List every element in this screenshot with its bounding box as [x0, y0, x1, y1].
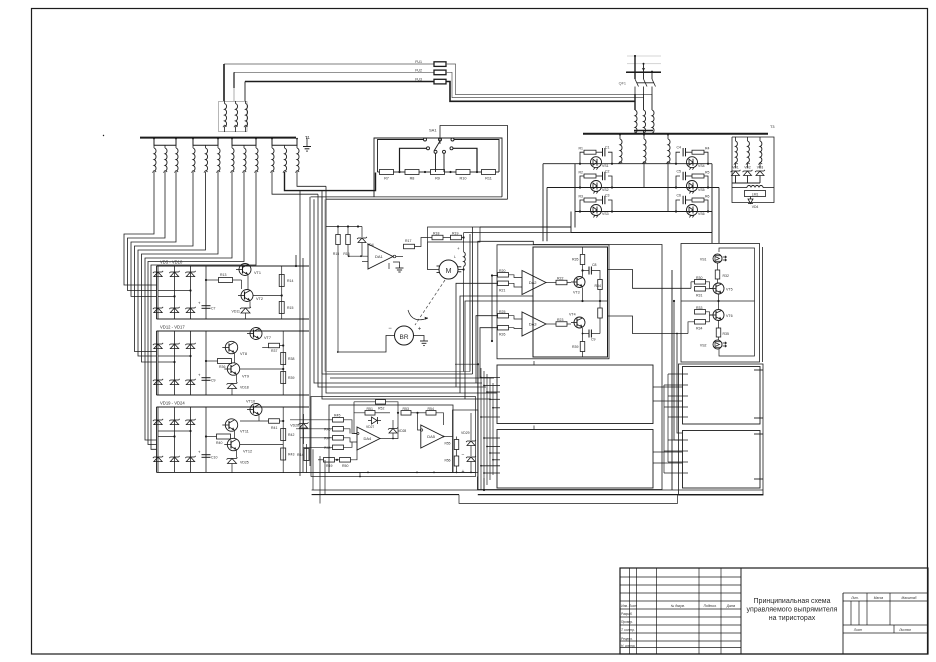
- wire bridge chain e: [314, 199, 482, 383]
- svg-text:R13: R13: [220, 273, 226, 277]
- wire R41 right: [280, 420, 284, 422]
- wire VT2 emitter: [249, 301, 251, 307]
- wire chain to return bus: [463, 233, 465, 238]
- bridge column: [174, 407, 176, 472]
- svg-text:VT12: VT12: [243, 450, 252, 454]
- wire rail1 left drop: [542, 164, 544, 242]
- resistor R16a: [347, 227, 349, 235]
- op-amp DA3: [522, 312, 546, 336]
- wire feed R46: [296, 428, 333, 430]
- svg-text:DA4: DA4: [363, 436, 372, 441]
- title block column lines: [629, 568, 631, 654]
- svg-text:VT4: VT4: [569, 313, 576, 317]
- resistor R44: [306, 444, 308, 473]
- svg-text:R4: R4: [705, 147, 710, 151]
- junction dots driver: [673, 300, 675, 302]
- module frame big: [478, 241, 662, 489]
- svg-text:VT7: VT7: [264, 336, 271, 340]
- motor M brush right: [458, 266, 462, 268]
- wire bridge1 to bridge2: [302, 266, 304, 472]
- resistor R5: [692, 174, 704, 178]
- motor output drop: [463, 270, 465, 372]
- svg-text:R39: R39: [288, 376, 294, 380]
- svg-text:R47: R47: [324, 437, 330, 441]
- wire C right stub 1: [754, 369, 763, 371]
- sawtooth block frame: [329, 405, 453, 472]
- snubber loop VS5: [676, 176, 680, 188]
- svg-text:R53: R53: [403, 407, 409, 411]
- bridge diode bottom: [170, 457, 178, 462]
- wire R35b to VS2: [718, 337, 720, 340]
- wire QF1 pole 2: [643, 94, 645, 110]
- wire bundle drop 2: [319, 456, 321, 504]
- svg-text:R36: R36: [219, 365, 225, 369]
- wire VT3 emitter: [582, 288, 584, 302]
- wire feed R49: [318, 459, 324, 461]
- svg-text:C4: C4: [677, 146, 682, 150]
- svg-text:FU1: FU1: [415, 60, 422, 64]
- primary bottom bar: [634, 130, 653, 132]
- svg-text:R20: R20: [499, 269, 505, 273]
- svg-text:VT3: VT3: [573, 291, 580, 295]
- limiter wires: [456, 437, 458, 440]
- zener VD18: [228, 384, 237, 389]
- field winding box LM: [745, 191, 766, 197]
- transistor VT12: [227, 438, 239, 450]
- junction: [424, 171, 426, 173]
- resistor R54: [426, 411, 436, 416]
- svg-text:VS1: VS1: [602, 164, 609, 168]
- capacitor C9: [205, 331, 207, 395]
- resistor R7: [380, 170, 394, 175]
- motor left lead: [428, 242, 440, 270]
- wire DA1 plus input: [362, 261, 368, 263]
- svg-text:Подпись: Подпись: [704, 604, 717, 608]
- svg-text:+: +: [198, 450, 201, 455]
- wire FU2 to breaker: [446, 72, 644, 97]
- wire tap A1: [481, 377, 500, 379]
- snubber loop VS2: [580, 176, 584, 188]
- wire bundle drop 1: [312, 449, 314, 490]
- block A notch: [533, 361, 535, 365]
- winding 3.3: [255, 145, 257, 148]
- pulse block D: [683, 431, 761, 489]
- svg-text:R34: R34: [595, 284, 601, 288]
- transformer T2 outline: [219, 102, 248, 132]
- wire B to D 1: [653, 451, 683, 453]
- right secondary winding 2: [643, 135, 645, 139]
- svg-text:R2: R2: [579, 171, 584, 175]
- svg-text:R14: R14: [287, 279, 293, 283]
- right block frame: [679, 364, 764, 495]
- svg-text:R40: R40: [216, 441, 222, 445]
- svg-text:Изм.: Изм.: [621, 604, 628, 608]
- wire phase C to fuse FU3: [245, 81, 434, 83]
- svg-text:Лист: Лист: [628, 604, 638, 608]
- block frame around SA1 resistors: [374, 138, 502, 197]
- svg-text:L: L: [454, 255, 456, 259]
- svg-text:QF1: QF1: [619, 82, 626, 86]
- limiter frame: [453, 410, 479, 472]
- bridge diode bottom: [154, 457, 162, 462]
- capacitor C7: [205, 266, 207, 319]
- wire chain i: [326, 186, 497, 393]
- wire resistor chain: [470, 171, 482, 173]
- svg-text:R52: R52: [378, 407, 384, 411]
- wire A to C 2: [653, 400, 683, 402]
- winding 4.1: [271, 145, 273, 148]
- wire bottom bus drop: [711, 212, 713, 233]
- bridge column: [157, 407, 159, 472]
- wire R39 bottom: [582, 352, 584, 358]
- capacitor C5: [682, 172, 684, 180]
- resistor R18: [432, 235, 443, 240]
- wire secondary phase 2: [128, 172, 166, 291]
- wire bottom feed DA4: [359, 472, 361, 476]
- transistor VT2: [241, 290, 253, 302]
- wire VT8 emitter: [234, 354, 236, 364]
- transistor VT9: [227, 363, 239, 375]
- wire DA1 output: [393, 255, 396, 258]
- svg-text:VD27: VD27: [366, 425, 374, 429]
- wire VT5 emitter: [718, 294, 720, 301]
- svg-text:FU2: FU2: [415, 69, 422, 73]
- svg-text:R56: R56: [444, 459, 450, 463]
- thyristor VS3: [591, 205, 602, 216]
- resistor R26: [498, 325, 509, 330]
- motor right lead: [458, 269, 464, 271]
- title block outer frame: [620, 568, 928, 654]
- wire bundle drop 3: [324, 460, 326, 495]
- field winding 3: [759, 137, 761, 141]
- resistor R11: [482, 170, 496, 175]
- bridge diode bottom: [170, 380, 178, 385]
- wire DA2 fb: [514, 287, 530, 295]
- svg-text:VS2: VS2: [700, 344, 707, 348]
- winding 4.3: [296, 145, 298, 148]
- svg-text:Разраб.: Разраб.: [621, 612, 633, 616]
- bridge diode bottom: [154, 380, 162, 385]
- transformer T2 winding c: [246, 104, 248, 127]
- transformer T1 primary winding 2: [644, 110, 646, 133]
- wire tap B1: [484, 437, 500, 439]
- wire R40 left: [206, 436, 217, 438]
- resistor R39: [281, 372, 286, 384]
- svg-text:C9: C9: [211, 379, 216, 383]
- wire drop to transformer T2 winding 3: [244, 82, 246, 102]
- bottom rail module: [478, 494, 764, 496]
- wire VT9 emitter: [236, 375, 238, 383]
- resistor R15: [279, 302, 284, 314]
- wire B to D 2: [653, 462, 683, 464]
- wire DA3 out: [546, 323, 556, 325]
- svg-text:C6: C6: [677, 194, 682, 198]
- resistor R2: [584, 174, 596, 178]
- winding 1.3: [175, 145, 177, 148]
- resistor R17: [404, 244, 415, 249]
- svg-text:VS2: VS2: [602, 188, 609, 192]
- svg-text:R8: R8: [410, 177, 415, 181]
- BR left lead: [338, 336, 395, 353]
- zener VD11: [241, 308, 250, 313]
- resistor R19: [451, 235, 462, 240]
- bridge column: [174, 266, 176, 319]
- wire R38b bottom: [599, 318, 601, 334]
- svg-text:T1: T1: [305, 135, 311, 140]
- wire right thick drop: [671, 270, 673, 490]
- bus bar of transformer T1: [140, 137, 296, 139]
- svg-text:Провер.: Провер.: [621, 620, 633, 624]
- svg-text:SA1: SA1: [429, 128, 437, 133]
- block frame bottom line long: [311, 196, 502, 198]
- wire A to C 1: [653, 386, 683, 388]
- svg-text:T3: T3: [770, 125, 774, 129]
- resistor R25: [498, 313, 509, 318]
- transformer T1 primary winding 3: [652, 110, 654, 133]
- wire right bundle v1: [663, 385, 665, 473]
- wire tap B6: [484, 472, 500, 474]
- transformer T2 winding a: [225, 104, 227, 127]
- wire staircase 1: [456, 283, 498, 387]
- wire VT12 base right: [240, 444, 283, 446]
- thyristor VS2: [591, 181, 602, 192]
- svg-text:C10: C10: [211, 456, 217, 460]
- svg-text:R17: R17: [405, 239, 411, 243]
- wire DA2 out: [546, 282, 556, 284]
- svg-text:R15: R15: [287, 306, 293, 310]
- svg-text:R7: R7: [384, 177, 389, 181]
- svg-text:R54: R54: [428, 407, 434, 411]
- phase stub lines: [627, 55, 661, 57]
- wire tap D3: [668, 461, 688, 463]
- resistor R51: [365, 411, 375, 416]
- wire tap C3: [668, 395, 688, 397]
- svg-text:R49: R49: [326, 464, 332, 468]
- bridge mid wire: [158, 430, 191, 432]
- wire right rail drop 1: [711, 164, 713, 243]
- transistor VT8: [225, 341, 237, 353]
- capacitor C2: [602, 172, 604, 180]
- svg-text:Лит.: Лит.: [850, 596, 859, 600]
- pulse block A: [497, 365, 653, 424]
- svg-text:R55: R55: [444, 442, 450, 446]
- bridge column: [157, 331, 159, 395]
- wire VT7 collector: [258, 328, 260, 331]
- wire QF1 pole 3: [651, 94, 653, 110]
- transistor VT7: [250, 328, 262, 340]
- diode VD1: [732, 171, 740, 176]
- resistor R13: [219, 278, 233, 283]
- svg-text:VS6: VS6: [698, 212, 705, 216]
- wire VT1 collector: [247, 264, 249, 266]
- wire SA1 top link: [440, 126, 508, 145]
- transformer T2 winding b: [236, 104, 238, 127]
- svg-text:VD26: VD26: [290, 424, 299, 428]
- bridge diode bottom: [154, 308, 162, 313]
- svg-text:VD5 - VD10: VD5 - VD10: [160, 260, 183, 265]
- wire block1 exit top: [295, 255, 297, 266]
- wire staircase 4: [476, 316, 498, 383]
- svg-text:VD2: VD2: [744, 166, 751, 170]
- wire feedback loop: [351, 413, 353, 420]
- resistor R1: [584, 150, 596, 154]
- wire phase B to fuse FU2: [234, 71, 434, 73]
- capacitor C6: [682, 196, 684, 204]
- resistor R40: [217, 434, 231, 439]
- wire C right stub 2: [754, 417, 763, 419]
- wire C9 right: [591, 333, 600, 335]
- wire R23 to VT4: [567, 323, 571, 325]
- transistor VT6: [713, 310, 724, 321]
- resistor R45: [333, 418, 344, 423]
- wire armature return: [464, 232, 571, 234]
- resistor R43: [281, 448, 286, 460]
- svg-text:VD11: VD11: [232, 310, 241, 314]
- transistor VT1: [239, 264, 251, 276]
- bridge diode top: [170, 420, 178, 425]
- wire secondary phase 1: [124, 172, 157, 285]
- wire resistor chain: [394, 171, 406, 173]
- diode VD4: [750, 197, 752, 200]
- snubber loop VS4: [676, 152, 680, 164]
- wire R36: [206, 360, 218, 362]
- svg-text:M: M: [446, 268, 452, 275]
- wire SA1 right contact: [454, 140, 499, 173]
- wire tap B2: [487, 446, 500, 448]
- svg-text:VD3: VD3: [757, 166, 764, 170]
- svg-text:Н. контр.: Н. контр.: [621, 644, 635, 648]
- winding 3.1: [231, 145, 233, 148]
- driver mid wire: [681, 300, 755, 302]
- svg-text:DA3: DA3: [529, 322, 538, 327]
- resistor R6: [692, 198, 704, 202]
- field winding 2: [747, 137, 749, 141]
- svg-text:R46: R46: [324, 428, 330, 432]
- svg-text:R48: R48: [324, 446, 330, 450]
- wire rail3 drop to bus: [570, 212, 572, 233]
- svg-text:VT10: VT10: [246, 400, 255, 404]
- svg-text:VD1: VD1: [732, 166, 739, 170]
- svg-text:Принципиальная схема: Принципиальная схема: [754, 598, 831, 605]
- wire group4 a: [272, 172, 318, 194]
- svg-text:Листов: Листов: [898, 628, 911, 632]
- wire secondary phase 3: [131, 172, 176, 296]
- pulse block B: [497, 430, 653, 489]
- svg-text:R43: R43: [288, 453, 294, 457]
- resistor R20: [498, 273, 509, 278]
- wire resistor chain: [445, 171, 457, 173]
- wire tap D2: [664, 450, 688, 452]
- diode VD2: [744, 171, 752, 176]
- winding 2.2: [205, 145, 207, 148]
- winding 1.2: [164, 145, 166, 148]
- BR right lead: [414, 336, 425, 342]
- bridge mid wire: [158, 355, 191, 357]
- wire resistor chain: [496, 171, 500, 173]
- bridge column: [174, 331, 176, 395]
- bottom rail thick: [312, 494, 459, 496]
- wire group4 c: [297, 172, 326, 186]
- wire chain g: [322, 191, 490, 399]
- transformer T1 secondary winding group 3 frame: [232, 139, 256, 146]
- wire armature supply: [480, 226, 571, 228]
- wire R37 right: [280, 345, 284, 347]
- svg-text:+: +: [198, 373, 201, 378]
- stray mark: [103, 135, 104, 136]
- wire DA4 out: [380, 438, 393, 440]
- wire winding2 to rail2: [643, 162, 645, 188]
- wire R33 R34 join: [706, 312, 714, 315]
- right section grid: [843, 592, 928, 594]
- regulator block frame outer: [497, 245, 609, 359]
- svg-text:VS5: VS5: [698, 188, 705, 192]
- wire drop to transformer T2 winding 1: [223, 64, 225, 101]
- transformer T1 secondary winding group 2 frame: [193, 139, 218, 146]
- op-amp DA1: [368, 244, 393, 269]
- svg-text:VT9: VT9: [242, 375, 249, 379]
- capacitor C10: [205, 407, 207, 472]
- svg-text:VT2: VT2: [256, 297, 263, 301]
- wire bridge chain d: [309, 197, 311, 466]
- wire C8 right: [591, 271, 600, 280]
- winding 2.3: [217, 145, 219, 148]
- zener VD29a: [470, 413, 472, 440]
- op-amp DA2: [522, 271, 546, 295]
- svg-text:VT8: VT8: [240, 352, 247, 356]
- control block frame right edge: [472, 227, 474, 374]
- svg-text:R45: R45: [334, 414, 340, 418]
- wire R49 R50: [335, 459, 340, 461]
- bridge diode bottom: [186, 308, 194, 313]
- resistor R10: [456, 170, 470, 175]
- breaker QF1 bar: [626, 71, 661, 73]
- fuse FU3: [434, 79, 446, 84]
- wire top node: [326, 226, 362, 228]
- wire mid rail: [497, 300, 608, 302]
- svg-text:R42: R42: [288, 433, 294, 437]
- wire VT9 base right: [240, 368, 283, 370]
- wire chain h: [330, 377, 494, 379]
- regulator block frame inner: [533, 247, 608, 357]
- wire chain left feed: [376, 172, 378, 191]
- wire staircase 2: [460, 296, 533, 393]
- ground: [303, 146, 311, 148]
- bridge diode top: [170, 344, 178, 349]
- resistor R9: [431, 170, 445, 175]
- tachogenerator BR: [395, 326, 414, 345]
- wire R17 to R18 box: [415, 238, 428, 247]
- svg-text:R30: R30: [696, 276, 702, 280]
- bridge column: [157, 266, 159, 319]
- svg-text:DA5: DA5: [427, 434, 436, 439]
- cathode join: [732, 182, 760, 184]
- wire SA1 tap b: [400, 148, 427, 172]
- wire tap A2: [484, 385, 500, 387]
- svg-text:VS3: VS3: [602, 212, 609, 216]
- svg-text:−: −: [462, 453, 465, 459]
- rectifier block frame VD5 - VD10: [157, 265, 310, 267]
- winding 2.1: [192, 145, 194, 148]
- wire tap A5: [493, 407, 500, 409]
- wire rail connect: [477, 477, 479, 491]
- wire tap B5: [481, 465, 500, 467]
- bridge diode bottom: [170, 308, 178, 313]
- thyristor VS4: [687, 157, 698, 168]
- wire DA3 output step to driver: [608, 316, 688, 334]
- svg-text:R22: R22: [557, 277, 563, 281]
- svg-text:R3: R3: [579, 195, 584, 199]
- svg-text:LM1: LM1: [752, 192, 759, 196]
